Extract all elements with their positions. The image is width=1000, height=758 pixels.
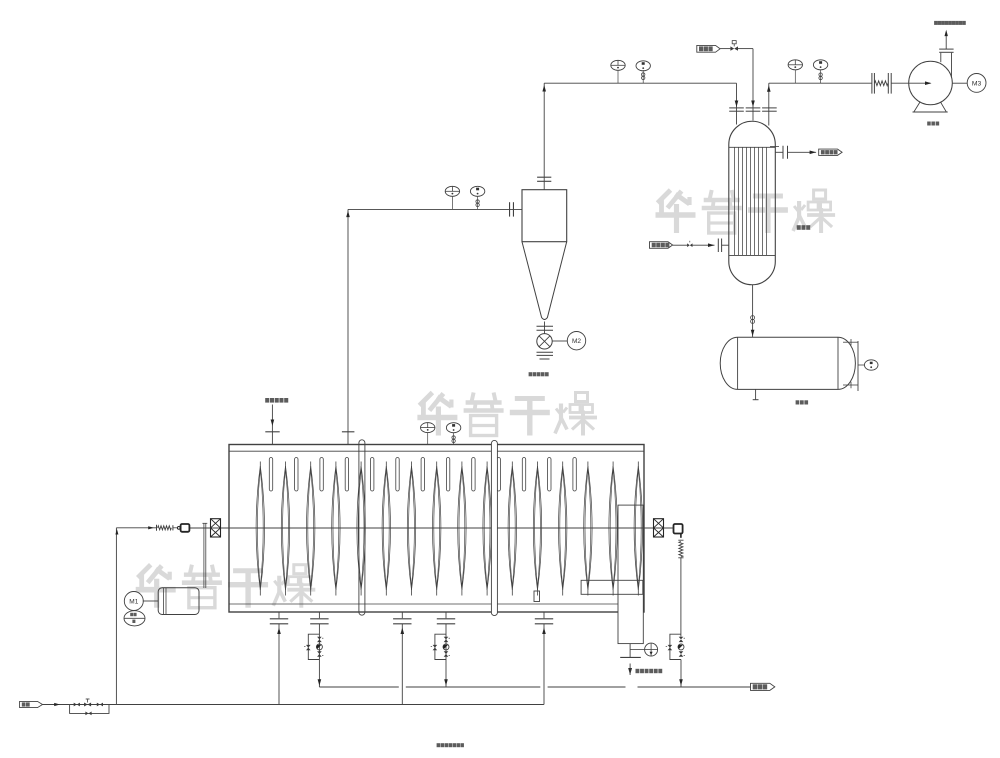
PRV bypass loop [70,705,109,714]
small valve on tank inlet [751,316,755,320]
steam end riser at N5 [543,624,545,705]
weir box bottom right [581,580,643,594]
instrument bubble PI before fan [820,70,822,83]
wire: valve to condenser middle nozzle [738,48,753,50]
receiver tank (horizontal capsule) [720,337,855,389]
PRV station valve 3 [97,703,100,707]
dryer bottom nozzle N4 flange [445,612,447,618]
cyclone separator body [522,190,567,242]
condensate header [319,686,398,688]
rotary airlock valve (circle with X) [537,334,552,349]
trap assembly T2: lower valve [444,651,449,654]
belt drive lines [203,524,205,589]
instrument bubble PI on dryer top [453,433,455,445]
fan support base [914,102,947,112]
cyclone bottom flange pair [537,325,554,327]
condenser bottom outlet wire [752,285,754,337]
discharge chute (right end, white interior) [618,505,643,643]
partition bar 1 [359,440,365,615]
root valve under PI [452,436,455,439]
steam branch riser at N1 [278,624,280,705]
fan outlet duct [940,53,942,62]
condenser gas outlet header to fan [769,82,872,84]
trap assembly T1: bypass loop [308,634,319,659]
steam header [116,704,544,706]
valve on cooling inlet [687,243,690,247]
condensate drop leg N4 [445,624,447,687]
level gauge [857,341,859,391]
disc elements (16 lens discs) [256,466,264,590]
flexible bellows connection [871,73,873,94]
trap assembly T2: bypass valve [433,645,438,648]
rotary valve bottom flanges [537,351,554,353]
instrument bubble TI on cyclone inlet [451,196,453,209]
flexible hose right (down) [678,539,683,541]
feed inlet nozzle [271,405,273,445]
left stuffing-box gland [211,519,221,537]
label 接液罐 [796,400,800,404]
speed reducer ellipse [124,611,145,626]
partition bar 2 [491,440,497,615]
instrument bubble PI on overhead line [642,70,644,83]
condenser tubes [734,147,736,255]
trap assembly T1: steam trap [316,644,322,650]
dryer bottom nozzle N5 flange [543,612,545,618]
watermark 华普干燥 [658,190,671,203]
exhaust stack line [945,36,947,49]
tag 循环水 with valve [697,45,720,52]
instrument bubble PI on cyclone inlet [477,196,479,209]
label 旋风除尘器 [529,372,533,376]
right rotary joint [674,524,683,534]
fan motor M3 [952,82,967,84]
cyclone cone [522,242,567,320]
wire: right joint down to trap [680,558,682,637]
flange pair at cyclone inlet [509,202,511,216]
cyclone top nozzle and flange [543,83,545,190]
tag 冷却出水 [819,149,842,155]
condenser top-right nozzle (gas outlet riser) [768,83,770,125]
trap assembly T3: upper valve [679,637,684,640]
trap assembly T2: bypass loop [435,634,446,659]
trap assembly T1: bypass valve [306,645,311,648]
level indicator bubble [858,364,864,366]
trap assembly T2: steam trap [443,644,449,650]
gear reducer box [158,588,199,615]
shaft centerline [190,527,673,529]
svg-text:M3: M3 [972,81,982,88]
shaft stub left [190,527,211,529]
dryer bottom nozzle N1 flange [278,612,280,618]
watermark 华普干燥 [138,565,151,578]
motor M2 [552,340,567,342]
globe valve on spray water line [730,46,734,50]
vapor nozzle flange [342,431,355,433]
trap assembly T3: steam trap [678,644,684,650]
instrument bubble TI on overhead line [617,70,619,83]
instrument bubble TI on dryer top [427,433,429,445]
svg-text:M2: M2 [572,338,581,345]
trap assembly T3: bypass valve [668,645,673,648]
steam riser to shaft [116,527,156,529]
trap assembly T1: lower valve [317,651,322,654]
label 湿物料进口 (wet feed inlet) [265,398,269,403]
condenser top-left nozzle (gas inlet from cyclone) [736,83,738,124]
root valve under PI [819,73,822,76]
label 干燥物料出口 [636,669,640,673]
condenser cooling water inlet (bottom left) [650,242,673,249]
instrument bubble TI before fan [794,70,796,83]
tag 冷凝水 [751,683,775,690]
left rotary steam joint [181,524,190,532]
wire: bellows to fan [891,82,930,84]
label 引风机 [927,122,931,126]
root valve under PI [642,73,645,76]
product outlet below chute [629,644,631,658]
motor M1 [143,600,158,602]
dryer shell inner top line [229,450,644,452]
PRV station valve 2 (with actuator) [84,703,88,707]
dryer bottom nozzle N3 flange [401,612,403,618]
right stuffing-box gland [654,519,664,537]
svg-text:M1: M1 [129,599,138,606]
PRV station valve 1 [70,704,117,706]
top slots (13) [269,458,272,492]
condensate drop leg N2 [318,624,320,687]
small rotary device circle [630,649,645,651]
flexible hose left [156,525,158,531]
wire: dryer vapor riser [347,209,349,444]
condenser cooling water outlet (top right) [775,151,783,153]
condenser tube sheets [729,146,776,148]
title 卧式盘式干燥机 [437,743,441,747]
dryer shell inner bottom line [229,603,644,605]
label 冷凝器 [797,225,801,230]
trap assembly T1: upper valve [317,637,322,640]
trap assembly T3: lower valve [679,651,684,654]
condenser shell (vertical capsule) [729,121,776,285]
watermark 华普干燥 [419,393,432,406]
tag 蒸汽 (steam inlet) [20,701,43,707]
steam branch riser at N3 [401,624,403,705]
product outlet arrow [628,668,632,675]
wire: cyclone inlet line [348,208,522,210]
condenser top-middle nozzle (spray water) [752,49,754,121]
small box on bottom shell [534,591,540,602]
trap assembly T3: bypass loop [670,634,681,659]
dryer bottom nozzle N2 flange [318,612,320,618]
tank drain [755,389,757,399]
trap assembly T2: upper valve [444,637,449,640]
label 尾气去后续处理系统 [934,21,938,25]
dryer shell [229,445,644,613]
wire: cyclone overhead to condenser [544,82,736,84]
root valve under PI bubble [476,200,479,203]
induced draft fan circle [909,61,953,105]
